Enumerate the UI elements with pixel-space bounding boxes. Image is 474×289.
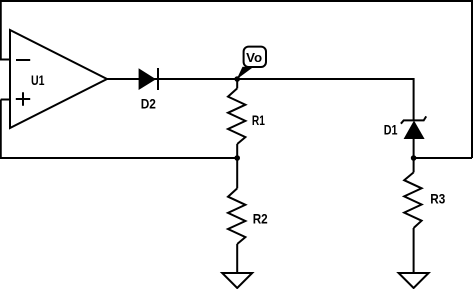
wire: R1 to junction [236,144,238,158]
wire: Vo node to D1 cathode [237,79,413,120]
Vo label pointer wedge [237,67,253,80]
wire: junction down to R3 [413,158,415,172]
svg-text:R3: R3 [430,191,445,207]
node: D1/R3 junction dot [411,155,417,161]
op-amp U1 body [10,30,107,128]
wire: op-amp output to Vo node [107,78,237,80]
node Vo junction dot [234,76,240,82]
wire: non-inverting input stub [1,99,11,101]
zener diode D1 anode triangle [404,121,425,140]
wire: inverting input stub [0,59,11,61]
wire: right edge to D1 anode node [414,157,472,159]
ground under R3 [399,273,429,288]
svg-text:Vo: Vo [246,50,262,65]
wire: Vo node down to R1 [236,79,238,88]
U1 non-inverting pin plus sign [16,92,30,106]
svg-text:D1: D1 [384,121,398,137]
resistor R2 [228,188,245,244]
Vo label box [244,47,266,67]
ground under R2 [222,273,252,288]
wire: feedback loop (left edge, top edge, right edge) [1,1,472,158]
wire: D1 anode to node [413,139,415,159]
resistor R1 [228,88,245,144]
diode D2 cathode bar [157,68,159,90]
wire: bottom feedback run to R1/R2 junction [0,157,237,159]
svg-text:D2: D2 [141,95,156,111]
diode D2 anode triangle [139,68,156,90]
node: R1/R2 feedback junction dot [234,155,240,161]
zener diode D1 cathode bar [401,116,426,123]
wire: R3 to ground [413,228,415,273]
svg-text:R2: R2 [253,210,268,226]
U1 inverting pin minus sign [16,59,30,61]
svg-text:U1: U1 [31,72,45,88]
svg-text:R1: R1 [252,112,265,128]
wire: left edge below non-inverting input [0,100,2,159]
wire: R2 to ground [236,244,238,273]
resistor R3 [404,172,421,228]
wire: junction down to R2 [236,158,238,188]
